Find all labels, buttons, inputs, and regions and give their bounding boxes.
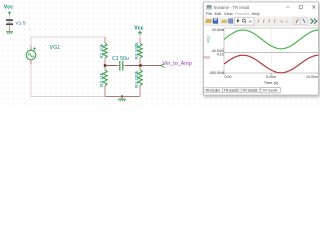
svg-text:0.00: 0.00 bbox=[225, 75, 232, 79]
svg-text:VG1: VG1 bbox=[207, 35, 211, 43]
svg-text:R3 100k: R3 100k bbox=[134, 42, 139, 60]
svg-text:R2 11k: R2 11k bbox=[99, 72, 104, 87]
svg-text:R4 100k: R4 100k bbox=[134, 70, 139, 88]
svg-text:C1 50u: C1 50u bbox=[112, 56, 129, 62]
svg-text:VG1: VG1 bbox=[50, 45, 61, 51]
junction node C1/R3/R4/output bbox=[139, 64, 141, 66]
svg-text:Time (s): Time (s) bbox=[264, 80, 279, 85]
ground G1 bbox=[6, 32, 13, 33]
svg-text:-400.00m: -400.00m bbox=[209, 71, 224, 75]
plot frame bottom (Vout) bbox=[222, 53, 319, 76]
y axis title Vout bbox=[204, 55, 211, 59]
green trace VG1 bbox=[224, 30, 319, 49]
label V1 5 bbox=[16, 20, 26, 26]
menu bar bbox=[206, 11, 261, 16]
svg-text:TR result4: TR result4 bbox=[263, 89, 278, 93]
power net label Vcc (left) bbox=[4, 5, 13, 11]
svg-text:Vin_to_Amp: Vin_to_Amp bbox=[163, 61, 192, 67]
plot frame top (VG1) bbox=[222, 28, 319, 53]
svg-text:TR result1: TR result1 bbox=[205, 89, 220, 93]
svg-text:V1 5: V1 5 bbox=[16, 20, 26, 26]
svg-text:40.00m: 40.00m bbox=[212, 28, 224, 32]
x axis tick labels bbox=[225, 75, 319, 79]
wire V1 top bbox=[9, 15, 11, 20]
svg-text:Help: Help bbox=[252, 11, 261, 16]
svg-text:Process: Process bbox=[235, 11, 249, 16]
svg-text:TR result3: TR result3 bbox=[243, 89, 258, 93]
result tabs bbox=[204, 87, 280, 93]
ground G2 bbox=[118, 97, 126, 101]
node label Vin_to_Amp bbox=[163, 61, 192, 67]
label VG1 bbox=[50, 45, 61, 51]
wire ground rail R2 to R4 bbox=[105, 95, 140, 97]
label R3 100k bbox=[134, 42, 139, 60]
resistor R4 bbox=[138, 66, 142, 97]
label C1 50u bbox=[112, 56, 129, 62]
red trace Vout bbox=[224, 55, 319, 73]
y axis labels top plot bbox=[211, 28, 224, 53]
svg-text:4.17: 4.17 bbox=[217, 53, 224, 57]
Vcc node symbol (left) bbox=[8, 12, 10, 15]
scope window bbox=[204, 2, 319, 95]
label R1 10k bbox=[99, 43, 104, 58]
title bar icon bbox=[207, 5, 212, 9]
battery V1 bbox=[6, 19, 13, 25]
y axis title VG1 bbox=[207, 35, 211, 43]
svg-text:Noname - TR result: Noname - TR result bbox=[214, 5, 251, 10]
toolbar bbox=[204, 17, 318, 27]
wire C1 left bbox=[105, 65, 118, 67]
y axis labels bottom plot bbox=[209, 53, 224, 75]
svg-text:TR result2: TR result2 bbox=[224, 89, 239, 93]
window buttons bbox=[286, 6, 315, 9]
junction node R1/R2/C1 bbox=[104, 64, 106, 66]
svg-text:File: File bbox=[206, 11, 213, 16]
wire VG1 top to R1 bbox=[31, 37, 105, 49]
wire C1 right bbox=[127, 65, 141, 67]
svg-text:10.00m: 10.00m bbox=[306, 75, 318, 79]
wire to output pin bbox=[141, 65, 162, 67]
resistor R2 bbox=[103, 66, 107, 97]
junction at ground tap bbox=[121, 95, 123, 97]
label R4 100k bbox=[134, 70, 139, 88]
resistor R3 bbox=[138, 38, 142, 66]
wire Vcc to R3 bbox=[139, 35, 141, 41]
svg-text:View: View bbox=[224, 11, 233, 16]
svg-text:○: ○ bbox=[286, 19, 289, 24]
resistor R1 bbox=[103, 37, 107, 66]
svg-text:Vcc: Vcc bbox=[4, 5, 13, 11]
Vcc node symbol (right) bbox=[138, 31, 142, 35]
svg-text:5.00m: 5.00m bbox=[266, 75, 276, 79]
wire VG1 bottom rail bbox=[31, 62, 105, 97]
title text bbox=[214, 5, 251, 10]
wire V1 bottom bbox=[9, 26, 11, 32]
svg-text:Vout: Vout bbox=[204, 55, 211, 59]
x axis title bbox=[264, 80, 279, 85]
svg-text:∿: ∿ bbox=[280, 19, 284, 24]
label R2 11k bbox=[99, 72, 104, 87]
svg-text:R1 10k: R1 10k bbox=[99, 43, 104, 58]
generator VG1 bbox=[26, 46, 36, 65]
power net label Vcc (right) bbox=[134, 26, 143, 32]
output pin Vin_to_Amp bbox=[158, 64, 165, 68]
svg-text:Edit: Edit bbox=[215, 11, 223, 16]
capacitor C1 bbox=[117, 61, 127, 71]
svg-text:Vcc: Vcc bbox=[134, 26, 143, 32]
